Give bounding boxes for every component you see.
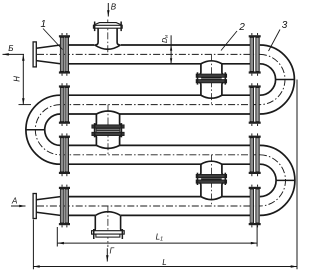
centerline row 4 (axis) bbox=[37, 205, 260, 207]
pipe run 2 bottom edge bbox=[69, 113, 251, 115]
svg-text:Н: Н bbox=[13, 76, 22, 82]
pipe run 4 bottom edge bbox=[69, 214, 251, 216]
section arrow A (port А) bbox=[11, 196, 26, 207]
centerline joint J3 vertical bbox=[210, 155, 212, 206]
flange pair right, row 2 bbox=[249, 83, 261, 126]
centerline row 3 (axis) bbox=[60, 154, 260, 156]
centerline bend B3 (right) bbox=[260, 155, 286, 206]
centerline joint J1 vertical bbox=[210, 54, 212, 104]
flange pair left, row 2 bbox=[59, 83, 70, 126]
svg-text:L1: L1 bbox=[156, 232, 164, 242]
svg-text:L: L bbox=[162, 258, 166, 267]
pipe run 2 top edge bbox=[69, 94, 251, 96]
section arrow B (port Б) bbox=[3, 44, 25, 55]
flange pair left, row 4 bbox=[59, 185, 70, 228]
section arrow V (port В) bbox=[107, 2, 117, 16]
dimension L1 (straight length) bbox=[57, 225, 257, 247]
nozzle G (bottom outlet, row 4) bbox=[92, 212, 125, 239]
centerline bend B2 (left) bbox=[35, 105, 60, 155]
flange pair left, row 3 bbox=[59, 133, 70, 176]
centerline bend B1 (right) bbox=[260, 54, 285, 104]
flanged joint J1 (rows 1-2) bbox=[196, 61, 226, 98]
flange pair right, row 4 bbox=[249, 185, 261, 228]
nozzle V (top inlet, row 1) bbox=[93, 22, 122, 50]
U-bend B1 (right, rows 1-2) pos.3 bbox=[260, 45, 295, 114]
item label 2 (pipe run) bbox=[221, 22, 245, 51]
svg-text:2: 2 bbox=[238, 22, 245, 33]
flanged joint J2 (rows 2-3) bbox=[92, 111, 124, 148]
centerline row 2 (axis) bbox=[19, 104, 260, 106]
inlet reducer port A (row 4) bbox=[33, 194, 60, 219]
centerline joint J2 vertical bbox=[107, 105, 109, 155]
svg-text:А: А bbox=[11, 196, 17, 205]
svg-text:3: 3 bbox=[282, 20, 288, 31]
dimension H (row pitch) bbox=[13, 54, 25, 104]
pipe run 3 top edge bbox=[69, 144, 251, 146]
U-bend B2 (left, rows 2-3) bbox=[26, 95, 61, 164]
flanged joint J3 (rows 3-4) bbox=[196, 161, 226, 199]
dimension Dn (pipe diameter) bbox=[162, 35, 172, 64]
section arrow G (port Г) bbox=[106, 246, 114, 261]
flange pair right, row 3 bbox=[249, 133, 261, 176]
svg-text:Б: Б bbox=[8, 44, 13, 53]
centerline nozzle V vertical bbox=[107, 20, 109, 55]
inlet reducer port B (row 1) pos.1 bbox=[33, 42, 60, 67]
centerline row 1 (axis) bbox=[37, 53, 260, 55]
pipe run 1 bottom edge bbox=[69, 63, 251, 65]
svg-text:Г: Г bbox=[110, 246, 115, 255]
flange pair left, row 1 bbox=[59, 33, 70, 76]
pipe run 1 top edge bbox=[69, 44, 251, 46]
item label 3 (U-bend) bbox=[269, 20, 288, 51]
dimension L (overall length) bbox=[33, 80, 297, 270]
centerline nozzle G vertical bbox=[107, 206, 109, 247]
flange pair right, row 1 bbox=[249, 33, 261, 76]
U-bend B3 (right, rows 3-4) bbox=[260, 145, 295, 215]
pipe run 3 bottom edge bbox=[69, 163, 251, 165]
svg-text:В: В bbox=[111, 2, 117, 11]
item label 1 (coil pipe) bbox=[41, 19, 63, 49]
svg-text:Dн: Dн bbox=[162, 35, 170, 43]
svg-text:1: 1 bbox=[41, 19, 47, 30]
pipe run 4 top edge bbox=[69, 196, 251, 198]
